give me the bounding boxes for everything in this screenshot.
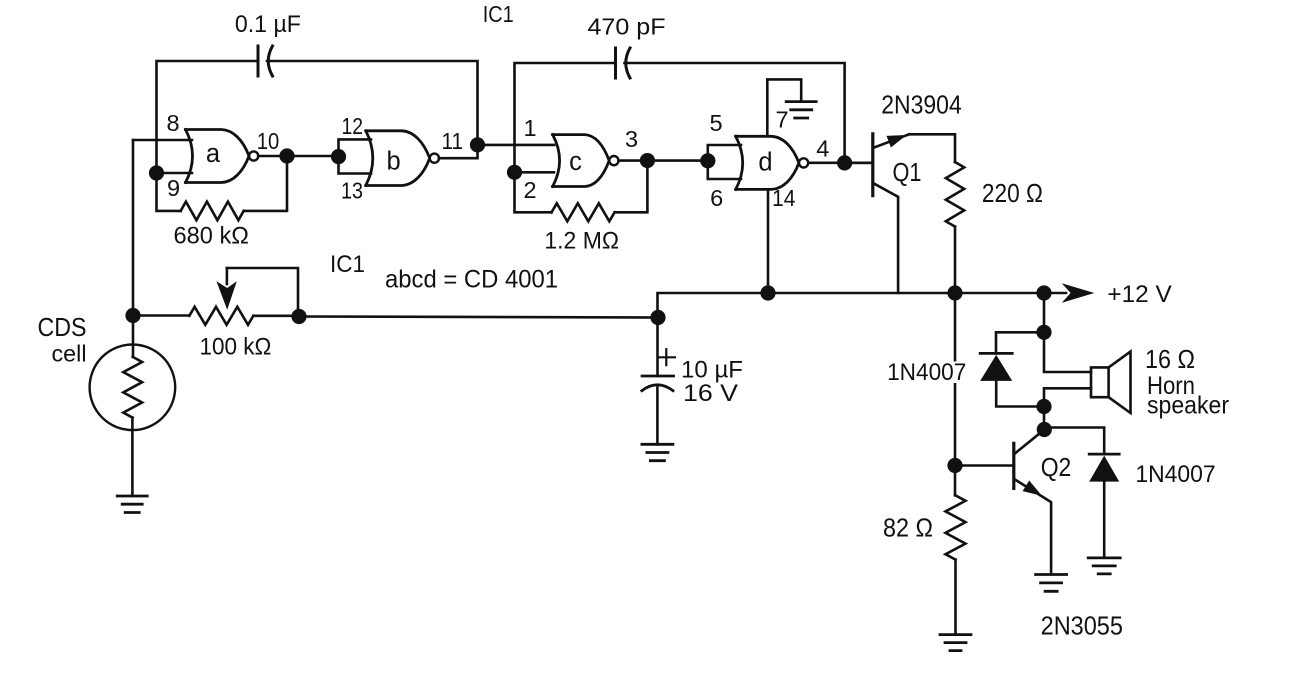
node speaker branch on rail [1036,285,1051,300]
wire gate a pin 8 input [133,139,192,142]
diode D1 1N4007 [980,352,1012,355]
svg-text:12: 12 [341,113,363,139]
svg-text:abcd = CD 4001: abcd = CD 4001 [385,266,558,294]
wire speaker branch to Q2 collector node [1043,407,1046,430]
wire 0.1uF feedback left segment [157,61,259,173]
wire C3 bottom [656,388,659,445]
wire pot node to C3 node [299,317,658,318]
wire R1 feedback left [157,173,181,211]
potentiometer R4 wiper wire [227,268,298,317]
ground at pin 7 [786,102,816,118]
svg-text:16 Ω: 16 Ω [1145,344,1195,374]
wire D2 to ground [1103,482,1106,556]
svg-text:14: 14 [772,185,795,211]
wire Q2 base node to R5 [954,466,957,496]
svg-text:Q1: Q1 [893,159,922,187]
label 1N4007 at D1 [884,362,970,384]
svg-text:2N3055: 2N3055 [1041,610,1123,640]
svg-text:IC1: IC1 [330,251,365,278]
transistor Q2 base wire [955,464,1014,467]
potentiometer R4 zigzag [189,307,253,325]
+12V arrowhead [1062,283,1095,303]
transistor Q1 arrow [887,135,907,148]
wire CDS to pot [133,314,189,317]
wire gate b output [439,145,478,158]
node R3 on rail [947,285,962,300]
wire 470pF right segment [625,63,845,163]
ground at Q2 emitter [1036,575,1067,592]
ground at C3 [642,444,673,460]
diode D2 1N4007 [1089,453,1119,456]
svg-text:c: c [569,148,582,176]
svg-text:CDS: CDS [38,314,87,342]
svg-text:9: 9 [167,175,180,201]
svg-text:5: 5 [709,110,722,136]
svg-text:10: 10 [257,128,280,154]
NOR gate U1c [553,135,610,187]
wire +12V rail [658,293,1067,318]
svg-text:100 kΩ: 100 kΩ [199,333,271,360]
wire gate c output [619,159,708,162]
wire CDS cell to ground [131,418,134,496]
speaker LS1 box [1091,367,1109,397]
node gate d output [837,155,852,170]
wire Q2 collector node to D2 [1044,428,1104,455]
potentiometer R4 wiper arrow [216,281,236,310]
svg-text:16 V: 16 V [683,380,738,407]
wire 470pF left segment [515,63,616,172]
wire gate d output [809,162,873,165]
svg-text:1N4007: 1N4007 [1135,461,1215,488]
svg-text:470 pF: 470 pF [588,14,666,40]
wire gate c pin 2 input [515,171,555,174]
transistor Q2 arrow [1023,481,1042,496]
wire D1 bottom [996,381,1044,407]
ground at R5 [940,635,971,651]
node gate c output [640,153,655,168]
node gate b input [331,149,346,164]
svg-text:IC1: IC1 [483,1,514,27]
resistor R3 220 ohm zigzag [946,162,964,227]
svg-text:4: 4 [816,136,829,162]
wire rail to speaker branch [1043,293,1046,332]
ground at CDS cell [117,496,147,513]
svg-text:+12 V: +12 V [1107,281,1172,308]
transistor Q2 collector lead [1015,432,1042,454]
svg-text:b: b [387,147,401,175]
node speaker bottom branch [1036,399,1051,414]
svg-text:11: 11 [442,128,464,154]
wire C3 top [656,318,659,377]
svg-text:1: 1 [523,115,536,141]
svg-text:680 kΩ: 680 kΩ [174,222,249,249]
wire gate d pin 14 to rail [767,189,770,293]
node Q2 collector junction [1037,422,1052,437]
wire speaker bottom lead [1044,388,1091,406]
wire gate a output to gate b [258,155,338,158]
node Q2 base junction [947,458,962,473]
svg-text:speaker: speaker [1147,392,1229,420]
node gate a output [279,148,294,163]
svg-text:d: d [758,149,772,177]
photoresistor CDS cell circle [90,345,176,431]
wire Q1 top to R3 [909,134,955,162]
node pin9 junction [149,165,164,180]
wire R2 feedback right [615,161,648,213]
svg-text:a: a [206,140,221,168]
wire 0.1uF feedback right segment [267,61,478,145]
node 11 junction [470,137,485,152]
transistor Q1 base wire [845,162,873,165]
speaker LS1 horn [1109,352,1131,413]
transistor Q2 emitter lead [1015,480,1051,573]
capacitor C2 470 pF [614,48,617,78]
capacitor C3 plus sign [658,349,675,365]
capacitor C1 0.1 uF [257,46,260,76]
node speaker top branch [1036,325,1051,340]
node pot output [291,309,306,324]
svg-text:cell: cell [52,341,87,367]
wire 220 node to Q2 base node [954,293,957,466]
node gate d input [700,153,715,168]
wire gate d pin 7 to ground [767,79,801,136]
svg-text:1.2 MΩ: 1.2 MΩ [544,228,619,255]
node C3 junction [650,310,665,325]
node gate c pin 2 junction [507,165,522,180]
wire gate b input tie bar [339,139,372,173]
wire D1 top [996,332,1044,353]
svg-text:2N3904: 2N3904 [881,89,962,119]
ground at D2 [1088,558,1120,574]
svg-text:1N4007: 1N4007 [887,359,966,386]
svg-text:82 Ω: 82 Ω [883,512,933,542]
wire speaker top lead [1044,332,1091,372]
capacitor C3 10uF [642,375,673,378]
svg-text:7: 7 [775,106,788,132]
photoresistor CDS inner zigzag [123,357,142,418]
node pin14 on rail [760,285,775,300]
transistor Q1 bottom lead [873,183,898,293]
resistor R5 82 ohm zigzag [946,495,966,559]
wire R5 to ground [954,560,957,633]
transistor Q1 top lead [873,134,909,148]
resistor R1 680k zigzag [181,202,244,221]
wire CDS junction vertical [132,140,135,316]
svg-text:2: 2 [523,177,536,203]
wire gate a pin 9 input [157,172,193,175]
wire node11 to gate c pin 1 [478,144,555,147]
wire pot to node [253,314,299,317]
svg-text:3: 3 [625,126,638,152]
svg-text:13: 13 [341,178,363,204]
svg-text:0.1 µF: 0.1 µF [235,11,301,38]
resistor R2 1.2M zigzag [552,203,615,221]
wire R3 to rail [954,227,957,293]
wire R2 feedback left [515,172,552,212]
NOR gate U1a [186,130,250,183]
transistor Q2 base bar [1012,443,1015,488]
wire into CDS cell [132,316,135,357]
node CDS junction [125,308,140,323]
svg-text:220 Ω: 220 Ω [982,178,1043,208]
wire gate d input tie bar [708,145,741,179]
NOR gate U1d [736,136,799,189]
wire R1 feedback right [244,156,287,211]
svg-text:8: 8 [166,110,179,136]
transistor Q1 base bar [871,134,874,196]
NOR gate U1b [366,131,430,186]
svg-text:6: 6 [710,185,723,211]
svg-text:Q2: Q2 [1041,454,1072,482]
